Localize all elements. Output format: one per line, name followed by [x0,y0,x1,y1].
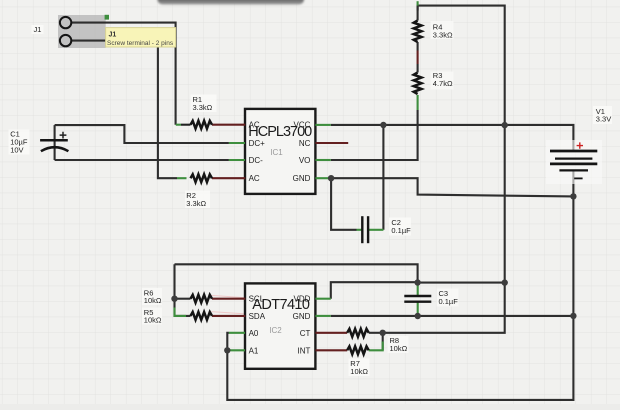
dark bar artifact top [158,0,305,5]
IC2 pin legs (A0, A1, VDD, GND) [229,299,331,351]
svg-text:IC1: IC1 [270,148,283,157]
svg-text:3.3kΩ: 3.3kΩ [193,103,213,112]
junction R7-R8 [380,330,386,336]
wire: C1 bottom to DC- [55,159,229,161]
wire: pull-up rail top [175,264,418,282]
label R4 [433,22,453,39]
label R8 [390,336,408,353]
svg-text:IC2: IC2 [269,326,282,335]
svg-text:GND: GND [293,174,311,183]
IC1 NC leg red [315,142,348,144]
wire: J1 pin1 to R1 [71,23,176,125]
svg-text:3.3kΩ: 3.3kΩ [433,30,453,39]
junction battery minus [570,193,576,199]
resistor R7 [315,342,382,355]
svg-text:VO: VO [299,156,311,165]
IC2 ADT7410 box [245,283,315,368]
connector J1 background plate [58,15,109,48]
junction VCC bus [502,122,508,128]
ratsnest SDA [212,312,246,314]
svg-text:ADT7410: ADT7410 [252,297,310,313]
svg-text:NC: NC [299,139,311,148]
junction GND right [570,313,576,319]
svg-text:4.7kΩ: 4.7kΩ [433,79,453,88]
svg-text:Screw terminal - 2 pins: Screw terminal - 2 pins [107,40,174,47]
wire: J1 pin2 down to R2 row [71,41,177,179]
wire: IC2 VDD up and right to C3 [331,282,418,299]
junction A0-A1 [224,347,230,353]
wire: IC1 GND to battery minus [331,178,574,196]
junction pull-up rail [171,296,177,302]
junction VCC-C2 [380,122,386,128]
svg-text:3.3V: 3.3V [596,115,611,124]
tooltip J1 [106,28,176,47]
svg-text:DC-: DC- [249,156,264,165]
junction IC1 GND [328,175,334,181]
IC1 pin legs (DC+, DC-, VCC, VO, GND) [229,125,331,178]
IC1 HCPL3700 box [245,109,315,194]
label R2 [186,191,206,208]
svg-text:3.3kΩ: 3.3kΩ [186,199,206,208]
svg-text:0.1µF: 0.1µF [391,226,411,235]
battery V1 [546,140,602,184]
junction VCC bus lower [502,279,508,285]
wire: R7 right up to R8 junction [382,333,384,351]
resistor R6 [191,295,246,303]
svg-text:SDA: SDA [249,312,266,321]
junction C3 bottom [415,313,421,319]
svg-text:0.1µF: 0.1µF [439,297,459,306]
svg-text:J1: J1 [109,32,117,39]
svg-text:10kΩ: 10kΩ [144,316,162,325]
wire: battery bottom lead [572,170,574,196]
svg-text:10V: 10V [10,146,23,155]
resistor R1 [176,121,246,129]
capacitor C2 [357,216,384,243]
resistor R4 (vertical) [414,1,422,64]
label C1 [10,130,28,155]
svg-text:CT: CT [300,329,311,338]
wire: pull-up rail drop to R6/R5 [175,264,191,316]
wire: C2 right up to VCC [382,125,384,230]
svg-text:A1: A1 [249,346,259,355]
label R5 [144,308,162,325]
svg-text:INT: INT [298,346,311,355]
label R3 [433,71,453,88]
wire: C3 junction to vertical bus [418,282,505,284]
svg-text:GND: GND [293,312,311,321]
wire: VCC row IC1 to battery top [331,125,574,151]
label R7 [350,359,368,376]
wire: R8 right to junction [369,332,383,334]
ratsnest SCL [212,295,246,297]
label R6 [144,288,162,305]
resistor R2 [177,174,245,182]
wire: R4 top rail over to vertical bus [383,6,505,333]
capacitor C1 [40,132,68,152]
svg-text:A0: A0 [249,329,259,338]
wire: IC2 GND row to right vertical [331,315,574,317]
svg-text:AC: AC [249,174,260,183]
wire: R3 bottom to VO [331,110,418,160]
svg-text:10kΩ: 10kΩ [350,367,368,376]
svg-text:DC+: DC+ [249,139,266,148]
svg-text:10kΩ: 10kΩ [390,344,408,353]
wire: A1 stub link [227,349,229,351]
svg-text:J1: J1 [34,25,42,34]
capacitor C3 [404,283,431,316]
resistor R3 (vertical) [414,64,422,110]
label R1 [193,95,213,112]
resistor R8 [315,329,368,337]
wire: R6 left [175,298,191,300]
svg-text:10kΩ: 10kΩ [144,296,162,305]
junction C3 top [414,279,420,285]
label C2 [391,218,411,235]
wire: GND dot down to C2 left [331,178,356,230]
svg-text:HCPL3700: HCPL3700 [248,124,312,140]
wire: C1 top to DC+ [55,125,229,143]
IC1 pin labels [249,121,311,184]
resistor R5 [175,308,246,320]
connector J1 pins [60,17,71,46]
label C3 [439,289,459,306]
label V1 [596,107,611,124]
IC2 pin labels [249,295,311,356]
wire: A0/A1 down along bottom to battery minus [227,196,573,400]
wire: C1 lead vertical [54,125,56,160]
